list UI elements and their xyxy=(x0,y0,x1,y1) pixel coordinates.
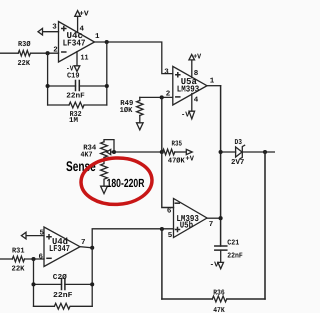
svg-text:R35: R35 xyxy=(172,139,183,148)
node C19 left xyxy=(46,84,50,88)
svg-text:LF347: LF347 xyxy=(49,244,70,254)
node U4d pin6 junction xyxy=(31,257,35,261)
minus input symbol U5b xyxy=(175,202,179,204)
wire R33 row left xyxy=(34,305,55,307)
power -V arrow U5a xyxy=(189,111,195,119)
power -V arrow U4c xyxy=(74,66,80,72)
wire U4d pin5 stub xyxy=(26,235,44,237)
input arrow at U4d pin5 xyxy=(21,232,26,239)
resistor R49 xyxy=(137,101,143,116)
node U5b output junction xyxy=(219,216,223,220)
svg-text:R3Ø: R3Ø xyxy=(18,40,31,49)
wire pin5 node down to bottom row xyxy=(161,229,163,299)
svg-text:6: 6 xyxy=(167,207,172,216)
svg-text:-V: -V xyxy=(210,261,219,269)
node U4d output junction xyxy=(90,246,94,250)
svg-text:180-220R: 180-220R xyxy=(107,176,145,190)
ground arrow under R49 xyxy=(137,123,144,130)
svg-text:1: 1 xyxy=(95,33,100,41)
minus input symbol U4d xyxy=(47,257,51,259)
plus input symbol U5b xyxy=(176,228,180,232)
resistor R30 xyxy=(18,50,30,56)
wire U4d feedback right vertical xyxy=(91,248,93,306)
wire R33 row right xyxy=(71,305,92,307)
minus input symbol U5a xyxy=(176,96,180,98)
svg-text:5: 5 xyxy=(168,232,173,240)
wire U5a output to rail xyxy=(207,85,221,87)
wire U5b output to rail xyxy=(207,217,221,219)
zener bar D3 xyxy=(240,145,245,158)
wire U4c output to U5a pin3 corner xyxy=(95,42,173,74)
wire sense row xyxy=(114,151,163,153)
wire C20 row left xyxy=(34,283,62,285)
input arrow at U4c pin3 xyxy=(38,28,43,35)
node D3 left junction xyxy=(219,150,223,154)
capacitor C21 xyxy=(215,246,227,250)
node sense row rail junction xyxy=(160,150,164,154)
wire U4c pin3 stub xyxy=(43,31,59,33)
svg-text:3: 3 xyxy=(52,23,57,32)
svg-text:1ØK: 1ØK xyxy=(120,106,133,115)
plus input symbol U4d xyxy=(47,235,51,239)
annotation red ellipse xyxy=(80,156,153,205)
power -V arrow C21 xyxy=(218,262,224,268)
node U4c pin2 junction xyxy=(46,51,50,55)
resistor R35 xyxy=(163,149,175,155)
svg-text:4: 4 xyxy=(194,97,199,105)
wire wiper to sense row xyxy=(111,151,114,153)
resistor R33 xyxy=(54,303,70,309)
power +V arrow U5a xyxy=(189,54,195,60)
svg-text:LM393: LM393 xyxy=(177,84,199,94)
svg-text:C19: C19 xyxy=(67,72,80,81)
resistor R31 xyxy=(12,256,24,262)
svg-text:2: 2 xyxy=(166,89,171,98)
svg-text:+V: +V xyxy=(79,10,89,18)
wire R32 row left xyxy=(48,104,69,106)
svg-text:+V: +V xyxy=(193,54,201,62)
wire R31 to U4d pin6 xyxy=(25,258,45,260)
wire R34 top hook to wiper xyxy=(104,140,114,152)
svg-text:+V: +V xyxy=(186,155,195,163)
svg-text:22nF: 22nF xyxy=(66,91,85,100)
op-amp U4c xyxy=(59,22,95,63)
node C19 right xyxy=(105,84,109,88)
svg-text:47ØK: 47ØK xyxy=(168,157,185,166)
power +V arrow right R35 xyxy=(186,149,192,154)
svg-text:C21: C21 xyxy=(227,239,239,248)
svg-text:2: 2 xyxy=(53,46,58,55)
wiper arrow R34 xyxy=(107,149,111,154)
wire bottom row right xyxy=(227,298,265,300)
svg-text:C2Ø: C2Ø xyxy=(53,273,68,282)
wire U5a pin4 to -V xyxy=(191,94,193,112)
diode D3 zener 2V7 xyxy=(236,147,242,157)
resistor 180-220R sense xyxy=(101,158,108,187)
svg-text:22K: 22K xyxy=(18,59,31,68)
svg-text:R31: R31 xyxy=(12,247,25,256)
wire R32 row right xyxy=(85,104,107,106)
wire U4d output xyxy=(80,247,92,248)
op-amp U4d xyxy=(44,227,80,267)
wire R35 to +V arrow xyxy=(175,151,187,153)
wire C19 row left xyxy=(48,85,76,87)
wire C20 row right xyxy=(65,283,92,285)
node C20 right xyxy=(90,282,94,286)
wire R49 bottom lead xyxy=(139,116,141,123)
wire R30 to U4c pin2 xyxy=(31,52,59,54)
wire R30 input from left edge xyxy=(0,52,18,54)
svg-text:LF347: LF347 xyxy=(63,39,86,49)
svg-text:5: 5 xyxy=(40,229,45,237)
wire C19 row right xyxy=(79,85,107,87)
wire right rail down xyxy=(264,152,266,299)
wire U4c pin4 to +V xyxy=(77,16,79,32)
plus input symbol U4c xyxy=(62,27,66,31)
wire sense rail down to U5b pin6 xyxy=(162,152,174,208)
svg-text:7: 7 xyxy=(81,239,86,247)
wire output rail vertical xyxy=(220,86,222,246)
plus input symbol U5a xyxy=(176,73,180,77)
svg-text:D3: D3 xyxy=(235,138,243,147)
svg-text:-V: -V xyxy=(181,112,190,120)
svg-text:1: 1 xyxy=(210,77,215,85)
node C20 left xyxy=(31,282,35,286)
svg-text:2V7: 2V7 xyxy=(231,158,244,167)
minus input symbol U4c xyxy=(62,51,66,53)
wire rail between U5a pin2 and sense row xyxy=(161,97,163,152)
resistor R36 xyxy=(212,296,226,302)
resistor R32 xyxy=(69,102,84,108)
svg-text:22K: 22K xyxy=(12,265,25,274)
wire C21 to -V xyxy=(220,250,222,262)
capacitor C20 xyxy=(62,279,65,290)
svg-text:U5b: U5b xyxy=(180,221,193,231)
wire bottom row left xyxy=(162,298,212,300)
svg-text:3: 3 xyxy=(164,68,169,77)
wire D3 cathode to right xyxy=(242,151,275,153)
wire R49 top hook xyxy=(139,97,141,100)
node U5b pin5 junction xyxy=(160,227,164,231)
capacitor C19 xyxy=(76,81,80,91)
ground arrow under sense resistor xyxy=(101,186,108,193)
node U4c output junction xyxy=(105,40,109,44)
comparator U5b xyxy=(174,199,208,238)
wire U4c feedback right vertical xyxy=(106,42,108,105)
wire R31 input from left edge xyxy=(0,258,12,260)
wire U4c feedback left vertical xyxy=(47,53,49,105)
wire U4c pin11 to -V xyxy=(76,52,78,66)
power +V arrow U4c xyxy=(75,11,81,17)
potentiometer R34 body xyxy=(101,142,108,158)
svg-text:22nF: 22nF xyxy=(227,251,243,260)
svg-text:6: 6 xyxy=(39,252,44,261)
node D3 right junction xyxy=(263,150,267,154)
wire U5b pin5 row from U4d xyxy=(92,229,173,248)
wire D3 anode xyxy=(221,151,236,153)
svg-text:R36: R36 xyxy=(213,288,225,297)
comparator U5a xyxy=(173,66,207,105)
svg-text:22nF: 22nF xyxy=(53,291,73,300)
svg-text:47K: 47K xyxy=(213,307,225,313)
node R34 wiper junction xyxy=(112,150,116,154)
svg-text:7: 7 xyxy=(209,221,214,229)
wire U4d feedback left vertical xyxy=(33,259,35,306)
wire U5a pin8 to +V xyxy=(191,60,193,78)
svg-text:11: 11 xyxy=(81,54,89,62)
node U5a pin2 junction xyxy=(160,95,164,99)
svg-text:1M: 1M xyxy=(69,117,78,125)
wire U5a pin2 row xyxy=(140,96,173,98)
